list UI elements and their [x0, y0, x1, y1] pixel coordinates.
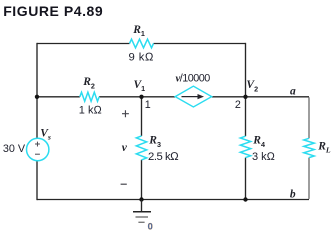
svg-text:3 kΩ: 3 kΩ — [252, 151, 276, 163]
svg-text:9 kΩ: 9 kΩ — [129, 51, 154, 63]
svg-text:b: b — [290, 189, 296, 201]
svg-text:30 V: 30 V — [3, 143, 26, 155]
resistor R4 — [240, 135, 275, 163]
svg-text:1 kΩ: 1 kΩ — [79, 104, 103, 116]
ground — [133, 200, 151, 223]
resistor R2 — [79, 76, 103, 116]
svg-text:a: a — [290, 85, 296, 97]
svg-text:FIGURE P4.89: FIGURE P4.89 — [3, 3, 103, 19]
wire R3 branch lower (R3 to bottom wire) — [141, 160, 143, 200]
wire right vertical upper (corner a to RL) — [308, 97, 310, 138]
svg-text:2: 2 — [235, 99, 241, 111]
wire R4 branch upper (node V2 down to R4) — [245, 97, 247, 136]
wire left vertical upper (corner to source Vs) — [36, 43, 38, 138]
node V2 — [243, 79, 258, 99]
node V1 — [134, 79, 146, 99]
voltage v annotation (+, v, -) across R3 — [121, 110, 129, 184]
wire middle right segment (dependent source through V2 to corner a) — [212, 96, 309, 98]
wire bottom — [37, 199, 309, 201]
wire R4 branch lower (R4 to bottom wire) — [245, 158, 247, 200]
junction dot (R3 branch / bottom wire) — [139, 197, 143, 201]
wire top-right segment (R1 to corner above V2) — [154, 43, 246, 45]
wire top-left segment (left corner to R1) — [37, 43, 130, 45]
wire vertical from top wire down to node V2 — [245, 43, 247, 97]
svg-text:2.5 kΩ: 2.5 kΩ — [148, 151, 179, 163]
resistor R3 — [136, 135, 179, 163]
wire left vertical lower (source Vs to bottom corner) — [36, 161, 38, 200]
wire middle segment (R2 to dependent source, through node V1) — [99, 96, 175, 98]
wire right vertical lower (RL to bottom corner b) — [308, 158, 310, 199]
svg-text:1: 1 — [145, 99, 151, 111]
svg-text:v: v — [122, 142, 128, 154]
wire R3 branch upper (node V1 down to R3) — [141, 97, 143, 136]
node junction (left wire / middle wire) — [35, 95, 39, 99]
dependent source U1 (diamond, v/10000) — [175, 73, 212, 107]
svg-text:v/10000: v/10000 — [176, 73, 211, 85]
resistor RL — [304, 138, 331, 157]
voltage source Vs 30 V — [3, 128, 51, 161]
wire middle left segment (left wire to R2) — [37, 96, 80, 98]
svg-text:0: 0 — [148, 222, 153, 232]
junction dot (R4 branch / bottom wire) — [243, 197, 247, 201]
resistor R1 — [129, 24, 154, 64]
